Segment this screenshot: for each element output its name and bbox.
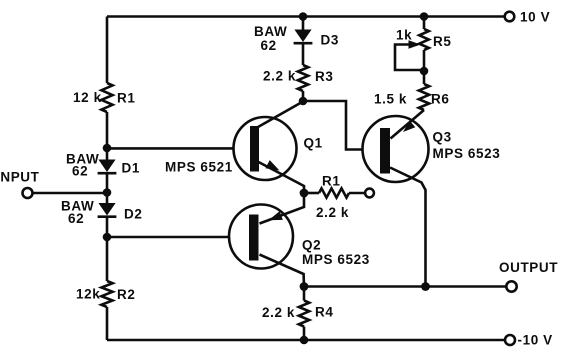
svg-text:BAW: BAW — [254, 24, 287, 39]
svg-text:2.2 k: 2.2 k — [316, 205, 349, 220]
transistor Q3 base bar — [380, 128, 390, 174]
transistor Q1 MPS 6521 circle — [234, 117, 297, 180]
arrow Q1 emitter (NPN, pointing out) — [265, 160, 279, 170]
wire left branch vertical (rail to R1) — [106, 17, 109, 84]
terminal -10V — [505, 335, 515, 345]
terminal +10V — [505, 12, 515, 22]
node R5 / R6 junction — [420, 67, 429, 76]
svg-text:12 k: 12 k — [73, 90, 102, 105]
node junction top rail / D3 branch — [299, 12, 308, 21]
svg-text:R3: R3 — [315, 69, 333, 84]
svg-text:D1: D1 — [122, 161, 140, 176]
wire R1 to terminal — [349, 192, 366, 195]
wire Q1 collector — [258, 102, 303, 128]
svg-text:R4: R4 — [315, 305, 333, 320]
svg-text:62: 62 — [68, 211, 84, 226]
node output / Q3 collector junction — [421, 282, 430, 291]
svg-text:10 V: 10 V — [520, 10, 550, 25]
node R1/D1/Q1-base junction — [103, 144, 112, 153]
wire Q2 emitter — [260, 193, 305, 224]
node Q2 collector / R4 / output junction — [300, 282, 309, 291]
terminal OUTPUT — [506, 281, 516, 291]
svg-text:12k: 12k — [76, 287, 100, 302]
wire INPUT lead — [32, 192, 107, 195]
wire R2 to bottom rail — [106, 307, 109, 340]
wire output run — [304, 285, 506, 288]
potentiometer R5 1k from rail — [423, 17, 426, 30]
transistor Q2 MPS 6523 circle — [229, 205, 293, 269]
wire D3 branch from rail — [302, 17, 305, 30]
svg-text:MPS 6523: MPS 6523 — [302, 252, 370, 267]
R5 wiper arm box — [395, 45, 424, 71]
wire Q2 base — [107, 236, 249, 239]
wire R3 to collector node — [302, 91, 305, 101]
wire D1 to D2 — [106, 173, 109, 203]
node R4 / bottom rail junction — [300, 336, 309, 345]
node INPUT junction — [103, 188, 112, 197]
arrow Q3 emitter (PNP, pointing in) — [403, 121, 415, 132]
svg-text:Q2: Q2 — [302, 238, 321, 253]
svg-text:1.5 k: 1.5 k — [374, 92, 407, 107]
diode D2 BAW 62 — [98, 203, 115, 216]
svg-text:D2: D2 — [124, 207, 142, 222]
terminal INPUT — [23, 188, 33, 198]
svg-text:62: 62 — [261, 38, 277, 53]
resistor R3 2.2k — [298, 65, 308, 91]
node D2/R2/Q2-base junction — [103, 233, 112, 242]
svg-text:-10 V: -10 V — [518, 333, 553, 348]
svg-text:R5: R5 — [433, 34, 451, 49]
svg-text:62: 62 — [72, 164, 88, 179]
svg-text:R1: R1 — [117, 91, 135, 106]
wire R1 bottom to D1 — [106, 112, 109, 160]
svg-text:2.2 k: 2.2 k — [263, 69, 296, 84]
terminal R1 output — [365, 189, 374, 198]
wire Q3 collector — [390, 168, 426, 287]
wire emitter node to R1 — [304, 192, 319, 195]
wire node to Q3 base (right, down, right) — [303, 101, 380, 150]
arrow R5 wiper — [409, 40, 421, 48]
wire D3 to R3 — [302, 44, 305, 66]
svg-text:R2: R2 — [117, 287, 135, 302]
svg-text:Q3: Q3 — [433, 130, 452, 145]
svg-text:D3: D3 — [321, 33, 339, 48]
resistor R1 12k — [101, 83, 112, 112]
arrow Q2 emitter (PNP, pointing in) — [269, 211, 283, 220]
resistor R4 2.2k — [303, 287, 306, 301]
node emitter junction Q1/Q2/R1 — [300, 189, 309, 198]
wire top supply rail — [107, 15, 505, 18]
transistor Q1 base bar — [250, 126, 259, 172]
resistor R2 12k — [101, 281, 112, 307]
wire Q1 base — [107, 147, 250, 150]
diode D1 BAW 62 — [98, 160, 115, 173]
resistor R6 1.5k — [423, 71, 426, 84]
svg-text:OUTPUT: OUTPUT — [499, 260, 558, 275]
node Q1 collector / R3 / Q3 base junction — [299, 97, 308, 106]
wire Q2 collector — [260, 255, 305, 287]
svg-text:2.2 k: 2.2 k — [262, 305, 295, 320]
wire Q1 emitter — [259, 162, 305, 193]
svg-text:Q1: Q1 — [304, 136, 323, 151]
wire bottom supply rail — [107, 339, 505, 342]
svg-text:1k: 1k — [396, 28, 412, 43]
svg-text:MPS 6523: MPS 6523 — [433, 146, 501, 161]
resistor R1 2.2k (series output) — [319, 188, 349, 197]
transistor Q2 base bar — [249, 215, 259, 261]
svg-text:R6: R6 — [431, 92, 449, 107]
diode D3 BAW 62 — [294, 30, 311, 43]
node junction top rail / R5 branch — [420, 12, 429, 21]
wire Q3 emitter (from R6) — [391, 110, 425, 139]
svg-text:INPUT: INPUT — [0, 170, 40, 185]
svg-text:R1: R1 — [322, 174, 340, 189]
transistor Q3 MPS 6523 circle — [363, 116, 429, 182]
wire D2 to R2 — [106, 217, 109, 281]
svg-text:MPS 6521: MPS 6521 — [165, 160, 233, 175]
